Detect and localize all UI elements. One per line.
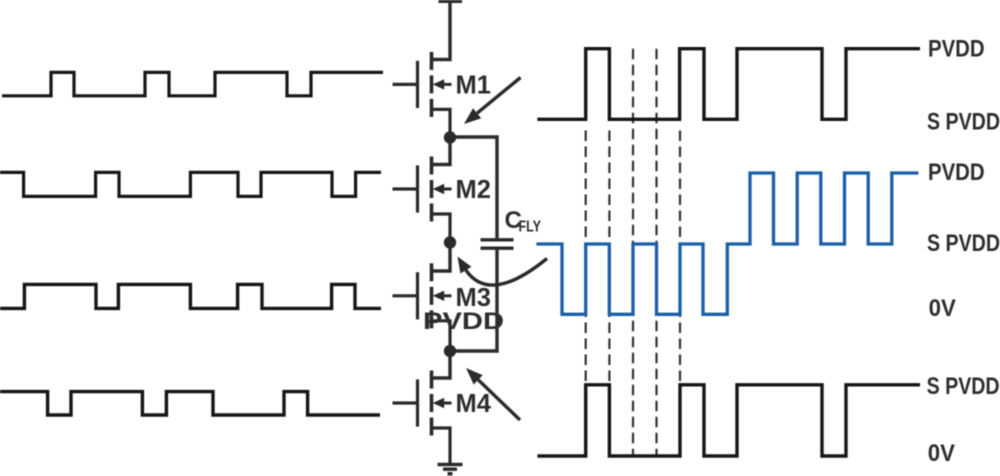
- svg-text:PVDD: PVDD: [928, 36, 985, 63]
- dashed timing guide line 5: [679, 131, 681, 386]
- wire node C to M4 drain: [432, 351, 451, 378]
- dashed timing guide line 3: [632, 49, 634, 456]
- transistor M2: [393, 157, 452, 243]
- wire capacitor bottom to node C: [450, 250, 497, 351]
- ground: [438, 465, 463, 474]
- transistor M4: [393, 371, 452, 464]
- svg-text:PVDD: PVDD: [423, 308, 504, 335]
- svg-text:PVDD: PVDD: [928, 159, 985, 186]
- svg-text:M1: M1: [456, 71, 491, 99]
- wire node B to M3 drain: [432, 243, 451, 272]
- svg-text:0V: 0V: [929, 295, 956, 322]
- waveform M2 gate drive: [0, 172, 381, 196]
- node A (M1 source / M2 drain / C_FLY top): [444, 131, 456, 143]
- PVDD rail top bar: [439, 0, 463, 3]
- node C (M3 source / M4 drain / C_FLY bottom): [444, 345, 456, 357]
- waveform M1 gate drive: [2, 72, 383, 95]
- wire node A to capacitor top: [450, 137, 497, 238]
- dashed timing guide line 1: [585, 131, 587, 386]
- dashed timing guide line 4: [655, 49, 657, 456]
- waveform switch node blue: [536, 173, 918, 314]
- wire PVDD rail to M1 drain: [432, 2, 451, 60]
- wire node A to M2 drain: [432, 138, 451, 165]
- svg-text:S PVDD: S PVDD: [927, 108, 1000, 135]
- annotation arrow to node C: [466, 368, 520, 420]
- waveform output top black (M1 drain node drive): [537, 49, 920, 120]
- waveform output bottom black: [537, 385, 920, 456]
- transistor M1: [393, 52, 452, 138]
- dashed timing guide line 2: [608, 131, 610, 386]
- waveform M3 gate drive: [0, 284, 381, 308]
- svg-text:0V: 0V: [928, 440, 955, 467]
- capacitor C_FLY: [481, 240, 514, 248]
- svg-text:S PVDD: S PVDD: [927, 230, 1000, 257]
- svg-text:M2: M2: [456, 176, 491, 204]
- transistor M3: [393, 263, 452, 351]
- svg-text:FLY: FLY: [519, 219, 542, 236]
- annotation arrow to node A: [464, 78, 521, 125]
- curved annotation arrow to node B: [458, 257, 548, 286]
- svg-text:M4: M4: [456, 390, 492, 418]
- waveform M4 gate drive: [0, 392, 380, 415]
- node B (M2 source / M3 drain): [444, 236, 456, 248]
- svg-text:S PVDD: S PVDD: [927, 373, 1000, 400]
